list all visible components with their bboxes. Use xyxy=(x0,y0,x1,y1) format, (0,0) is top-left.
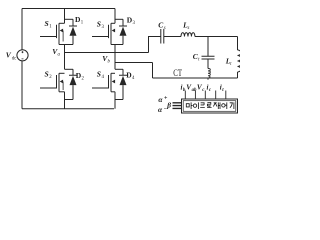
switch S4 source to rail xyxy=(114,92,116,109)
hangul eo xyxy=(222,104,225,107)
label D4 xyxy=(126,70,135,81)
gate drive lines xyxy=(173,103,182,109)
gate bus alpha minus xyxy=(158,105,168,114)
label S3 xyxy=(97,20,105,31)
current transformer CT coil xyxy=(208,69,210,78)
sense ticks into controller xyxy=(185,91,226,100)
label D1 xyxy=(75,15,84,26)
mosfet S1 xyxy=(40,23,65,44)
wire node Va to resonant branch xyxy=(65,52,149,54)
svg-text:c: c xyxy=(202,88,205,93)
diode D1 xyxy=(69,19,77,44)
hangul gi xyxy=(230,102,234,109)
tank bottom rail xyxy=(153,77,238,79)
label S2 xyxy=(45,70,53,81)
dc source Vdc xyxy=(17,50,28,61)
switch S2 drain bar xyxy=(65,68,74,70)
svg-text:3: 3 xyxy=(133,21,136,26)
diode D3 xyxy=(119,19,127,44)
wire node Vb to return xyxy=(115,63,153,79)
hangul ma xyxy=(186,102,192,109)
wire Ls to Lt xyxy=(195,36,238,38)
hangul je xyxy=(213,102,220,109)
svg-text:t: t xyxy=(198,57,200,62)
switch S2 lower bar xyxy=(65,99,74,101)
svg-text:c: c xyxy=(209,88,212,93)
svg-text:t: t xyxy=(222,88,224,93)
hangul ro xyxy=(207,103,212,108)
svg-text:1: 1 xyxy=(49,25,52,30)
label S4 xyxy=(97,70,105,81)
label ic xyxy=(207,84,212,93)
label Cs xyxy=(158,21,165,31)
label D3 xyxy=(127,16,136,27)
label ib xyxy=(181,84,186,93)
svg-text:s: s xyxy=(188,26,190,31)
switch S3 drain bar xyxy=(115,18,123,20)
switch S4 source bar xyxy=(111,91,115,93)
label CT xyxy=(173,69,182,79)
svg-text:4: 4 xyxy=(132,76,135,81)
hangul i xyxy=(193,104,196,107)
svg-text:3: 3 xyxy=(102,25,105,30)
svg-text:t: t xyxy=(230,62,232,67)
controller box xyxy=(182,99,238,113)
label Vb xyxy=(102,54,110,65)
label it xyxy=(220,84,224,93)
label Ct xyxy=(193,52,200,62)
left supply wire xyxy=(21,9,23,109)
label S1 xyxy=(45,19,53,30)
svg-text:−: − xyxy=(164,107,168,113)
label Ls xyxy=(182,21,189,31)
label Vab xyxy=(186,84,197,93)
switch S3 rail drop xyxy=(114,9,116,24)
svg-text:s: s xyxy=(164,26,166,31)
svg-text:b: b xyxy=(108,60,111,65)
svg-text:S: S xyxy=(97,70,101,79)
capacitor Ct branch xyxy=(202,37,215,69)
switch S1 rail drop xyxy=(64,9,66,24)
svg-text:dc: dc xyxy=(12,56,17,61)
label Lt xyxy=(225,57,232,67)
inductor Ls xyxy=(181,33,195,37)
svg-text:α: α xyxy=(158,105,163,114)
label D2 xyxy=(76,71,85,82)
controller korean text xyxy=(186,102,234,109)
svg-text:α: α xyxy=(158,95,163,104)
svg-text:S: S xyxy=(45,70,49,79)
diode D4 xyxy=(119,69,127,99)
switch S1 drain bar xyxy=(65,18,74,20)
svg-text:S: S xyxy=(45,19,49,28)
mosfet S4 xyxy=(92,73,115,92)
sense tap tick xyxy=(207,78,209,80)
mosfet S3 xyxy=(92,23,115,44)
svg-text:S: S xyxy=(97,20,101,29)
wire down to Lt xyxy=(237,37,239,51)
mosfet S2 xyxy=(40,73,65,92)
label Vdc xyxy=(6,51,16,62)
capacitor Cs xyxy=(161,29,181,44)
switch S1 source bar xyxy=(59,44,73,46)
switch S2 source to rail xyxy=(64,92,66,109)
gate bus beta xyxy=(166,100,171,109)
hangul keu xyxy=(200,103,205,108)
svg-text:2: 2 xyxy=(82,77,85,82)
svg-text:4: 4 xyxy=(102,75,105,80)
switch S2 source bar xyxy=(59,91,65,93)
diode D2 xyxy=(69,69,77,99)
label Vc xyxy=(197,84,205,93)
bottom rail xyxy=(22,108,114,110)
wire Va step up to Cs xyxy=(149,37,161,53)
node Va link through xyxy=(64,45,66,70)
node Vb link through xyxy=(114,45,116,70)
top rail xyxy=(22,8,115,10)
svg-text:2: 2 xyxy=(49,75,52,80)
gate bus alpha plus xyxy=(158,95,168,104)
switch S4 lower bar xyxy=(115,99,123,101)
switch S4 drain bar xyxy=(115,68,123,70)
svg-text:1: 1 xyxy=(81,20,84,25)
svg-text:a: a xyxy=(58,52,61,57)
label Va xyxy=(52,47,60,58)
inductor Lt xyxy=(238,50,242,78)
switch S3 source bar xyxy=(111,44,123,46)
